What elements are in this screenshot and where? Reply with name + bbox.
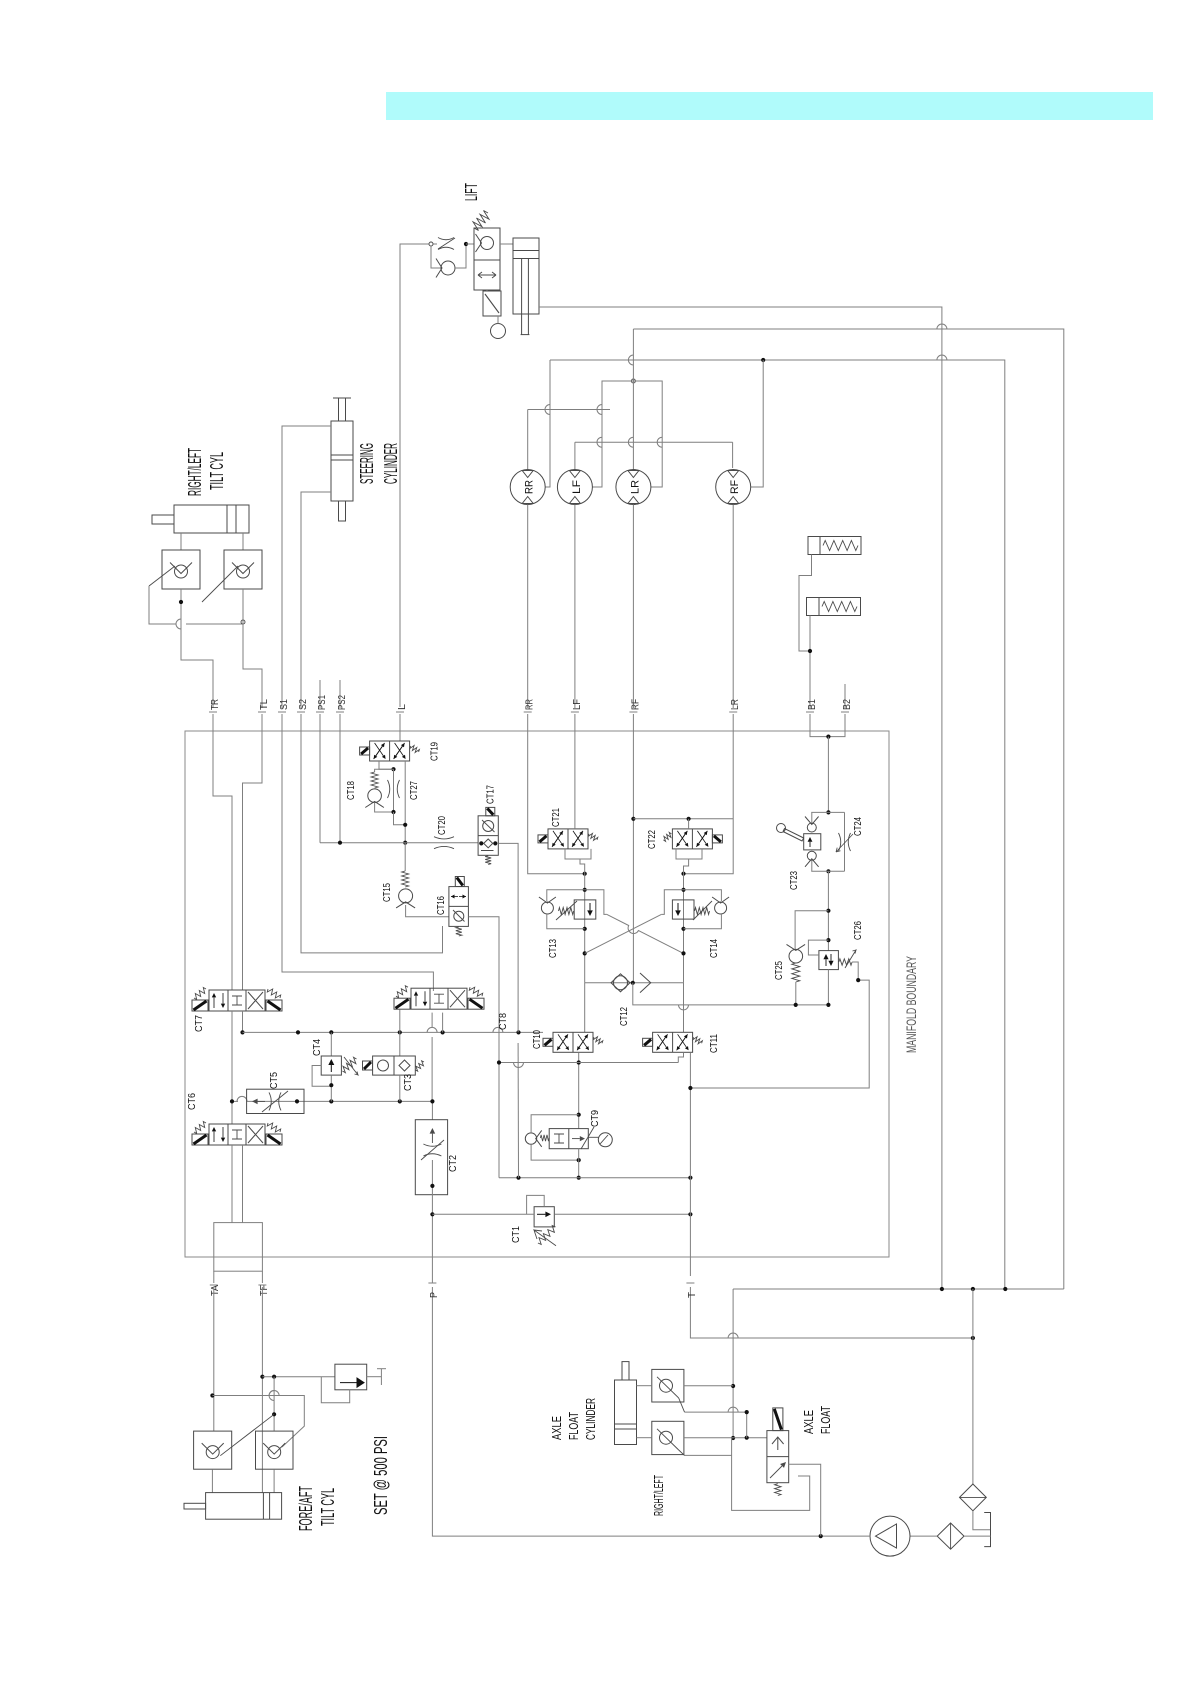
port label TR <box>210 699 221 710</box>
label CT20 <box>437 816 448 835</box>
svg-text:RR: RR <box>524 480 536 494</box>
motor RF <box>728 471 739 478</box>
node axle drain join <box>819 1534 823 1538</box>
wire CT13 line to CT10 <box>584 983 586 1033</box>
brake actuator 1 divider <box>819 537 821 555</box>
node CT18 top <box>391 767 395 771</box>
wire port S2 into manifold <box>300 714 302 733</box>
CT9 gauge <box>588 1133 612 1147</box>
svg-text:TF: TF <box>259 1285 270 1296</box>
node gallery CT4top <box>329 1030 333 1034</box>
hop gallery over ct16 drain <box>493 1027 503 1032</box>
CT26 spring <box>839 959 852 965</box>
label CT9 <box>590 1110 601 1127</box>
axle valve loop <box>732 1438 810 1510</box>
hop axle pilot1 <box>728 1407 738 1412</box>
wire tilt pilot left loop <box>149 586 176 624</box>
axle valve solenoid <box>773 1408 783 1431</box>
node tilt pilot junction <box>179 600 183 604</box>
port RF tick <box>629 711 637 713</box>
valve CT19 <box>375 743 386 759</box>
wire TA down <box>213 1287 215 1431</box>
wire CT17 out to corner <box>498 843 518 1032</box>
node tank join <box>971 1336 975 1340</box>
hop midgal over pilot drop <box>514 1063 524 1068</box>
wire PS1 stub <box>319 680 321 708</box>
check valve CT25 <box>787 944 806 963</box>
valve CT21 <box>572 831 583 847</box>
axle piston <box>615 1424 637 1429</box>
tilt lock out <box>367 1376 382 1378</box>
CT14 pilot loop <box>684 890 722 901</box>
axle cylinder body <box>615 1380 637 1445</box>
valve CT8 <box>469 987 482 996</box>
wire brake1 drain <box>799 555 812 652</box>
node collector 2 <box>971 1287 975 1291</box>
wire cyl to box2 <box>637 1437 652 1439</box>
check valve CT12 <box>611 974 630 992</box>
CT23 arrow <box>808 837 813 847</box>
valve CT8 <box>434 994 444 1003</box>
wire CT6 down TL <box>242 1145 244 1223</box>
wire motor RR to port <box>527 505 529 709</box>
wire port LF into manifold <box>574 714 576 733</box>
node CT13 feed <box>583 872 587 876</box>
tilt cylinder rod <box>152 515 174 524</box>
wire tilt cyl right to check2 <box>242 533 244 550</box>
svg-text:LR: LR <box>730 699 741 710</box>
decorative header bar <box>386 92 1153 120</box>
flow control lift <box>438 238 454 250</box>
svg-text:TA: TA <box>210 1285 221 1296</box>
node pilot gallery <box>403 841 407 845</box>
label CT22 <box>647 830 658 849</box>
pump <box>870 1516 910 1556</box>
svg-text:FLOAT: FLOAT <box>818 1406 833 1434</box>
node CT9 drain <box>577 1176 581 1180</box>
node CT14 loop bottom <box>681 927 685 931</box>
port P tick <box>428 1282 436 1284</box>
wire CT7 out TR <box>231 1011 233 1124</box>
node lowergal left <box>230 1099 234 1103</box>
port TL tick <box>258 711 266 713</box>
node lowergal CT4 <box>329 1099 333 1103</box>
wire collector <box>733 1288 1064 1290</box>
wire CT9 down <box>578 1149 580 1178</box>
valve CT17 body <box>478 816 498 856</box>
wire CT1 right <box>554 1213 690 1215</box>
port PS1 tick <box>316 711 324 713</box>
CT15 spring <box>402 871 409 887</box>
valve CT21 <box>573 831 584 847</box>
valve lift cell divider <box>474 259 500 261</box>
motor LF <box>557 470 592 505</box>
label AXLE 1 <box>549 1416 564 1440</box>
axle pilot2 diag <box>679 1450 685 1455</box>
wire port L into manifold <box>399 714 401 733</box>
node TF valve branch <box>260 1375 264 1379</box>
valve CT22 <box>676 831 687 847</box>
svg-text:STEERING: STEERING <box>356 443 377 484</box>
wire lower gallery2 <box>247 1101 433 1119</box>
pilot check valve tilt L <box>237 565 250 578</box>
wire CT4 bottom <box>330 1075 332 1101</box>
node drain pilot <box>516 1176 520 1180</box>
CT3 solenoid <box>363 1061 373 1070</box>
node CT17 in <box>479 841 483 845</box>
valve CT19 <box>395 743 406 759</box>
check valve in lift holding <box>476 234 494 252</box>
wire box1 out <box>684 1385 733 1387</box>
pilot check fore <box>202 1443 224 1454</box>
CT23 top check <box>805 817 819 833</box>
node brake join <box>808 649 812 653</box>
CT23 lever <box>777 824 804 842</box>
valve CT6 <box>194 1122 206 1134</box>
spring lift valve <box>473 211 489 231</box>
CT23 top link <box>811 811 844 813</box>
valve CT7 <box>248 992 263 1009</box>
wire CT8 port3 down <box>442 1013 444 1033</box>
port label P <box>429 1292 440 1298</box>
svg-text:CT23: CT23 <box>789 871 800 890</box>
valve CT6 <box>248 1126 263 1143</box>
wire CT26 down <box>827 970 829 1005</box>
valve CT19 <box>370 741 410 761</box>
brake actuator 2 divider <box>818 598 820 616</box>
svg-text:P: P <box>429 1292 440 1298</box>
valve CT6 <box>232 1130 242 1139</box>
check valve CT13 <box>539 897 556 914</box>
valve CT7 <box>232 996 242 1005</box>
motor RF <box>729 480 741 494</box>
steering cylinder body <box>331 421 353 501</box>
wire CT8 port2 down <box>431 1013 433 1027</box>
wire CT11 down <box>678 1052 683 1062</box>
label CT23 <box>789 871 800 890</box>
wire CT27 jog <box>394 812 406 825</box>
node PS2 join <box>338 841 342 845</box>
valve CT22 <box>696 831 707 847</box>
wire PS2 down <box>339 733 341 843</box>
node gallery CT8b <box>441 1030 445 1034</box>
pilot line tilt R <box>149 566 175 586</box>
wire lift check branch right <box>455 246 466 268</box>
port label B1 <box>807 699 818 710</box>
svg-text:PS2: PS2 <box>337 695 348 710</box>
valve CT10 <box>557 1034 568 1050</box>
CT9 left cell marks <box>554 1134 564 1143</box>
wire L into CT19 <box>399 733 401 741</box>
lift cylinder piston <box>513 251 539 259</box>
valve CT10 <box>577 1034 588 1050</box>
wire tank drop <box>972 1289 974 1484</box>
wire upper gallery <box>243 1031 544 1033</box>
CT3 divider <box>393 1056 395 1075</box>
CT3 diamond <box>399 1060 410 1071</box>
wire port TR into manifold <box>212 714 214 733</box>
wire brake2 drain <box>809 616 811 709</box>
port L tick <box>396 711 404 713</box>
wire TF to lock valve <box>262 1376 335 1378</box>
hop LR feed over gallery1 <box>628 355 633 365</box>
valve CT10 <box>543 1038 553 1046</box>
wire port RF into manifold <box>632 714 634 733</box>
svg-text:LF: LF <box>572 699 583 710</box>
wire CT27 vert <box>393 769 395 812</box>
wire port TL into manifold <box>261 714 263 733</box>
valve CT6 <box>192 1134 208 1145</box>
node tilt TL branch <box>241 620 245 624</box>
hop RR drop over gallery <box>545 405 550 415</box>
valve CT7 <box>221 993 225 1008</box>
motor LF <box>569 497 580 504</box>
valve CT11 <box>653 1032 693 1052</box>
CT22 bottom stub <box>684 859 689 874</box>
valve CT11 <box>643 1038 653 1046</box>
wire CT4 top <box>330 1032 332 1056</box>
hop pilot over TA line <box>269 1391 274 1401</box>
valve CT8 <box>414 991 418 1006</box>
wire CT22 top stub <box>688 819 690 829</box>
svg-text:SET @ 500 PSI: SET @ 500 PSI <box>370 1436 391 1515</box>
node CT14 feed <box>681 872 685 876</box>
axle check2 sym <box>657 1429 679 1450</box>
pilot check valve tilt L <box>232 563 254 574</box>
label AXLE 2 <box>801 1410 816 1434</box>
wire port PS1 into manifold <box>319 714 321 733</box>
node lift valve inlet <box>464 242 468 246</box>
wire LF top drop <box>574 442 576 469</box>
needle valve CT24 <box>839 833 851 851</box>
pilot check valve tilt R <box>175 565 188 578</box>
wire port LR into manifold <box>732 714 734 733</box>
wire S1 line <box>282 426 331 708</box>
valve CT7 <box>209 990 265 1011</box>
port label PS1 <box>317 695 328 710</box>
wire B2 stub <box>844 684 846 708</box>
node midgal left <box>497 1060 501 1064</box>
node lowergal CT5 <box>295 1099 299 1103</box>
motor RF <box>728 497 739 504</box>
node CT13 loop top <box>583 888 587 892</box>
node CT13 cross <box>583 951 587 955</box>
CT13 spring <box>559 908 574 915</box>
flow control CT2 <box>415 1120 447 1195</box>
brake spring 1 <box>823 541 858 551</box>
node CT23 bottom <box>826 869 830 873</box>
CT26 arrow up <box>823 954 828 966</box>
wire RF right port drop <box>751 360 764 487</box>
wire S2 inside <box>301 733 443 953</box>
wire PS2 stub <box>339 680 341 708</box>
CT26 arrow dn <box>828 954 833 966</box>
motor LF <box>569 471 580 478</box>
label CT14 <box>709 939 720 958</box>
wire LR right port feed <box>633 381 662 487</box>
CT9 adjust <box>581 1127 594 1149</box>
node CT17 out <box>493 841 497 845</box>
tank symbol <box>984 1513 990 1547</box>
valve CT21 <box>553 831 564 847</box>
CT17 divider <box>478 835 498 837</box>
svg-text:RIGHT/LEFT: RIGHT/LEFT <box>184 448 205 496</box>
wire port S1 into manifold <box>281 714 283 733</box>
CT14 pilot left <box>661 890 683 915</box>
valve CT7 <box>266 1000 282 1011</box>
port label B2 <box>842 699 853 710</box>
port B2 tick <box>841 711 849 713</box>
wire CT22 top link <box>633 818 733 820</box>
node RF CT22 branch <box>631 817 635 821</box>
axle pilot2 <box>685 1454 732 1456</box>
svg-text:CT10: CT10 <box>532 1030 543 1049</box>
brake actuator 2 <box>807 598 861 616</box>
hand pump CT23 body <box>804 834 821 850</box>
svg-text:CT8: CT8 <box>498 1013 509 1030</box>
node TA pilot <box>210 1393 214 1397</box>
CT14 spring <box>695 908 710 915</box>
wire LF RF top gallery <box>575 441 733 443</box>
wire lift valve outlet <box>500 243 513 245</box>
label CT26 <box>853 921 864 940</box>
wire CT6 down TR <box>231 1145 233 1223</box>
node CT26 join <box>826 1003 830 1007</box>
svg-text:FLOAT: FLOAT <box>566 1412 581 1440</box>
steering cylinder rod upper <box>339 398 346 421</box>
svg-text:CT13: CT13 <box>548 939 559 958</box>
CT4 adjust arrow <box>344 1057 358 1075</box>
label SET 500 <box>370 1436 391 1515</box>
wire CT25 branch <box>795 911 828 950</box>
wire T line <box>689 1053 691 1178</box>
check valve CT9 <box>525 1130 541 1146</box>
wire motor LR to port <box>632 505 634 709</box>
wire CT14 line to CT11 <box>683 983 685 1033</box>
svg-text:CT19: CT19 <box>430 742 441 761</box>
svg-text:CT18: CT18 <box>346 781 357 800</box>
svg-text:CT12: CT12 <box>619 1007 630 1026</box>
valve CT11 <box>678 1034 689 1050</box>
hop over drop line2 <box>937 355 947 360</box>
label CT12 <box>619 1007 630 1026</box>
CT13 pilot right <box>585 890 607 915</box>
counterbalance CT13 body <box>574 900 596 919</box>
valve CT11 <box>657 1034 668 1050</box>
node CT4 drain <box>329 1083 333 1087</box>
suction strainer <box>960 1484 987 1511</box>
lift cylinder body <box>513 238 539 314</box>
wire lower gallery <box>232 1100 238 1102</box>
wire CT19 left out <box>379 761 394 769</box>
svg-text:RIGHT/LEFT: RIGHT/LEFT <box>651 1475 666 1516</box>
node motor manifold <box>631 379 635 383</box>
pilot check fore <box>206 1446 219 1459</box>
port S2 tick <box>297 711 305 713</box>
wire cyl to box1 <box>637 1385 652 1387</box>
check valve CT18 <box>365 789 384 808</box>
wire LR circuit upper <box>633 329 1063 1289</box>
wire TF down <box>261 1287 263 1493</box>
wire LR down <box>684 733 734 874</box>
motor LF <box>571 480 583 494</box>
label FLOAT 1 <box>566 1412 581 1440</box>
valve CT10 <box>578 1034 589 1050</box>
axle valve arrow <box>770 1462 786 1478</box>
label CT19 <box>430 742 441 761</box>
node lift inlet <box>429 242 433 246</box>
wire LF into CT21 <box>574 733 576 829</box>
port label PS2 <box>337 695 348 710</box>
CT17 check circle <box>482 820 495 832</box>
port TF tick <box>258 1284 266 1286</box>
valve CT10 <box>558 1034 569 1050</box>
brake actuator 1 <box>808 537 861 555</box>
orifice CT20 <box>434 837 454 849</box>
valve CT21 <box>588 833 598 840</box>
solenoid lift valve <box>483 291 501 316</box>
port label RR <box>525 699 536 710</box>
wire B gallery <box>810 733 845 737</box>
wire TA pilot line <box>212 1396 304 1448</box>
node CT14 cross <box>681 951 685 955</box>
label CYLINDER steering <box>380 443 401 484</box>
label FLOAT 2 <box>818 1406 833 1434</box>
tilt cylinder body <box>174 505 249 533</box>
wire lift check branch left <box>431 246 441 268</box>
label CT5 <box>269 1072 280 1089</box>
orifice CT27 <box>388 780 400 798</box>
wire pilot gallery <box>320 842 478 844</box>
svg-text:S2: S2 <box>298 699 309 710</box>
CT22 bottom bracket <box>676 849 702 859</box>
wire pilot drop <box>517 1043 519 1178</box>
wire port B1 into manifold <box>809 714 811 733</box>
tilt lock pilot loop <box>321 1377 349 1403</box>
label CT10 <box>532 1030 543 1049</box>
axle valve check <box>772 1437 784 1450</box>
wire CT16 out <box>468 917 499 1178</box>
pilot check valve tilt R <box>170 563 192 574</box>
foreaft cylinder body <box>206 1493 282 1520</box>
svg-text:CT26: CT26 <box>853 921 864 940</box>
node gallery CT8 <box>398 1030 402 1034</box>
hop LF right over g2 <box>597 437 602 447</box>
motor LR <box>616 470 651 505</box>
label CT2 <box>448 1155 459 1172</box>
valve CT8 <box>423 991 427 1006</box>
hop LR right over g2 <box>657 437 662 447</box>
wire CT2 to P <box>431 1160 433 1283</box>
pilot check aft <box>268 1446 281 1459</box>
node CT10 out <box>577 1060 581 1064</box>
CT12 seat2 <box>640 973 651 993</box>
valve CT19 <box>410 746 420 753</box>
svg-text:PS1: PS1 <box>317 695 328 710</box>
CT16 check circle <box>453 910 465 922</box>
CT4 spring <box>342 1057 356 1072</box>
CT5 adjust <box>262 1091 288 1112</box>
CT14 adjust <box>693 901 712 920</box>
label FORE/AFT <box>295 1486 316 1531</box>
valve CT11 <box>677 1034 688 1050</box>
wire CT14 main <box>683 874 685 983</box>
CT9 spring <box>540 1135 549 1141</box>
wire pump suction <box>432 1287 870 1536</box>
relief valve CT26 body <box>819 951 839 970</box>
svg-text:RR: RR <box>525 699 536 710</box>
axle check box1 <box>652 1369 684 1402</box>
